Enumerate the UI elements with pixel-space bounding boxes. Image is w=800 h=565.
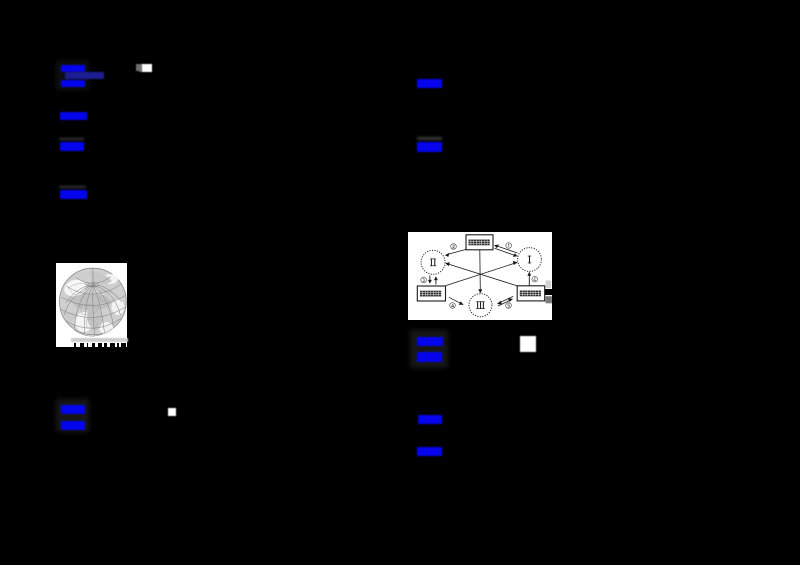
box 变质岩类 (bottom right) bbox=[517, 286, 545, 301]
gray smear above L5 bbox=[59, 138, 84, 141]
blue link row R5 bbox=[418, 415, 442, 424]
continent outlines bbox=[68, 284, 117, 328]
blue link row R1 bbox=[417, 79, 442, 88]
label 6 bbox=[532, 276, 538, 282]
white figure background bbox=[408, 232, 552, 320]
arrow 3 up: box to circle II bbox=[435, 278, 437, 284]
blue link row R6 bbox=[417, 447, 442, 457]
rock-cycle diagram figure bbox=[408, 232, 552, 325]
blue link row R4 bbox=[417, 352, 442, 362]
light gray square at right edge bbox=[546, 281, 552, 289]
arrow 5b: circle III to box bbox=[498, 300, 511, 306]
blue link row R3 bbox=[417, 337, 443, 346]
white figure background bbox=[56, 263, 127, 347]
label 3 bbox=[421, 277, 427, 283]
ocean white patches bbox=[62, 277, 88, 299]
diagonal: bottom-left box to circle I bbox=[446, 263, 516, 286]
gray smear above L6 bbox=[59, 186, 86, 189]
box 岩浆岩类 (bottom left) bbox=[417, 286, 445, 301]
black square overlapping diagram right edge bbox=[545, 289, 554, 296]
arrow 1a: circle I to top box bbox=[496, 246, 517, 253]
circle II (left, dotted) bbox=[421, 250, 445, 274]
arrow 6: bottom-right box up to circle I bbox=[528, 274, 530, 286]
blue link row L5 bbox=[60, 142, 85, 152]
land shading patches bbox=[68, 294, 111, 311]
white square marker left bbox=[168, 408, 176, 416]
black caption glyph tops cutting the white bottom edge bbox=[56, 343, 127, 347]
halo behind R3/R4 cluster bbox=[410, 330, 448, 368]
blue link row L8 bbox=[61, 421, 85, 430]
globe sphere bbox=[60, 268, 127, 335]
graticule: parallels bbox=[61, 277, 126, 337]
label 2 bbox=[451, 244, 457, 250]
comment icon: gray bubble tab bbox=[139, 70, 142, 72]
label 1 bbox=[506, 243, 512, 249]
dark gray square at right edge bbox=[546, 296, 552, 303]
halo behind answer cluster top-left bbox=[56, 61, 89, 90]
comment icon: white sheet bbox=[142, 64, 152, 73]
blue link row L3 bbox=[61, 80, 85, 87]
globe gray caption strip bbox=[71, 338, 128, 342]
gray smear above R2 bbox=[417, 137, 442, 140]
globe figure block bbox=[56, 263, 127, 352]
arrow 1b: top box to circle I bbox=[495, 248, 516, 255]
label 4 bbox=[450, 303, 456, 309]
box 沉积岩类 (top) bbox=[466, 235, 493, 250]
arrow 5a: box to circle III bbox=[499, 296, 513, 303]
halo behind L7/L8 cluster bbox=[56, 399, 89, 432]
arrow 2: top box to circle II bbox=[447, 249, 467, 254]
blue link row L6 bbox=[60, 190, 87, 199]
label 5 bbox=[506, 303, 512, 309]
arrow: top box down to circle III bbox=[479, 250, 482, 291]
circle I (right, dotted) bbox=[518, 248, 542, 272]
diagonal: bottom-right box to circle II bbox=[447, 264, 517, 286]
comment icon: gray bubble bbox=[136, 64, 143, 71]
arrow 3 down: circle II to box bbox=[429, 276, 431, 282]
circle III (bottom, dotted) bbox=[469, 294, 492, 317]
arrow 4: bottom-left box to circle III bbox=[449, 297, 462, 304]
blue link row L2 (dark navy answers) bbox=[65, 72, 104, 79]
blue link row L7 bbox=[61, 405, 85, 414]
blue link row L1 bbox=[61, 65, 85, 72]
graticule: meridians from pole bbox=[64, 268, 122, 335]
blue link row L4 bbox=[60, 112, 87, 120]
blue link row R2 bbox=[417, 142, 442, 152]
white square marker right bbox=[520, 336, 536, 352]
